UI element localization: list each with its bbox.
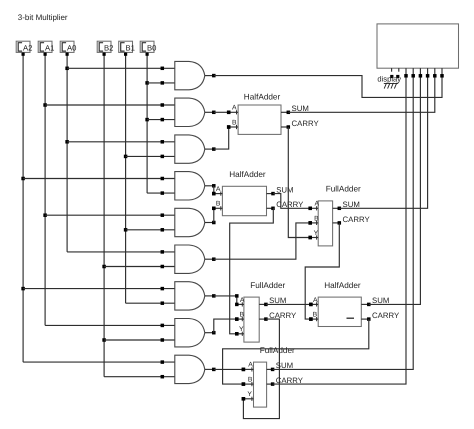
- wire G1 inputs A0,B0: [67, 67, 175, 85]
- svg-text:FullAdder: FullAdder: [250, 281, 285, 290]
- AND gate G8: [175, 319, 216, 347]
- svg-text:HalfAdder: HalfAdder: [324, 281, 361, 290]
- wire B0 vertical bus: [145, 52, 149, 193]
- svg-text:B: B: [248, 376, 253, 383]
- svg-text:B: B: [232, 119, 237, 126]
- svg-text:display: display: [377, 74, 401, 83]
- svg-text:B1: B1: [126, 44, 135, 53]
- svg-text:Y: Y: [314, 230, 319, 237]
- svg-text:CARRY: CARRY: [292, 119, 320, 128]
- svg-text:A: A: [313, 297, 318, 304]
- svg-text:HalfAdder: HalfAdder: [229, 170, 266, 179]
- AND gate G9: [175, 355, 216, 383]
- wire P2 U3 SUM to display: [339, 76, 427, 209]
- wire A1 vertical bus: [43, 52, 47, 325]
- wire B2 vertical bus: [102, 52, 106, 376]
- wire A0 vertical bus: [65, 52, 69, 252]
- wire G8 output to U4 B: [214, 317, 239, 332]
- wire G6 output to U3 B: [214, 221, 312, 259]
- svg-text:A: A: [216, 186, 221, 193]
- AND gate G6: [175, 245, 216, 273]
- svg-text:A: A: [240, 297, 245, 304]
- svg-text:FullAdder: FullAdder: [326, 185, 361, 194]
- svg-text:A: A: [232, 105, 237, 112]
- AND gate G5: [175, 208, 216, 236]
- full-adder U4 FullAdder: [235, 297, 268, 342]
- input pin A0: [60, 41, 76, 52]
- wire G9 output to U6 A: [214, 368, 245, 372]
- input pin B0: [140, 41, 156, 52]
- wire U4 SUM to U5 A: [266, 303, 313, 307]
- wire U5 CARRY to U6 B: [223, 319, 369, 386]
- display subcircuit box: [377, 24, 459, 68]
- wire P3 U5 SUM to display: [369, 76, 421, 305]
- wire G5 inputs A1,B1: [45, 213, 175, 231]
- svg-text:Y: Y: [247, 391, 252, 398]
- wire G3 output to U1 B: [214, 125, 231, 149]
- wire G8 inputs A1,B2: [45, 324, 175, 342]
- wire G7 output to U4 A: [214, 294, 239, 304]
- AND gate G3: [175, 135, 216, 163]
- svg-text:CARRY: CARRY: [343, 215, 371, 224]
- display hash label marks: [384, 83, 398, 89]
- input pin A1: [38, 41, 54, 52]
- input pin A2: [16, 41, 32, 52]
- svg-text:HalfAdder: HalfAdder: [244, 92, 281, 101]
- wire P0 G1 output to display: [214, 76, 442, 98]
- svg-text:A1: A1: [45, 44, 54, 53]
- input pin B1: [119, 41, 135, 52]
- display unconnected pin stubs: [390, 68, 399, 78]
- half-adder U1 HalfAdder: [227, 105, 290, 134]
- svg-text:A0: A0: [67, 44, 76, 53]
- wire G2 inputs A1,B0: [45, 103, 175, 121]
- svg-text:B0: B0: [147, 44, 156, 53]
- wire G2 output to U1 A: [214, 111, 231, 115]
- wire G4 inputs A2,B0: [23, 177, 175, 195]
- wire G5 output to U2 B: [212, 207, 216, 223]
- wire P1 U1 SUM to display: [288, 76, 435, 113]
- AND gate G1: [175, 61, 216, 89]
- svg-text:A: A: [315, 201, 320, 208]
- svg-text:Y: Y: [239, 326, 244, 333]
- svg-text:B2: B2: [104, 44, 113, 53]
- full-adder U6 FullAdder: [242, 362, 275, 407]
- svg-text:A: A: [248, 362, 253, 369]
- half-adder U2 HalfAdder: [212, 186, 275, 215]
- wire G7 inputs A2,B1: [23, 287, 175, 305]
- display pin stubs and connection dots: [404, 68, 444, 77]
- wire P4 U6 SUM to display: [273, 76, 414, 370]
- full-adder U3 FullAdder: [308, 201, 341, 246]
- wire U1 CARRY to U3 Y: [288, 127, 312, 239]
- svg-text:B: B: [240, 311, 245, 318]
- svg-text:B: B: [314, 215, 319, 222]
- AND gate G7: [175, 282, 216, 310]
- svg-text:B: B: [313, 311, 318, 318]
- wire U2 SUM to U3 A: [273, 194, 312, 210]
- AND gate G2: [175, 98, 216, 126]
- wire B1 vertical bus: [124, 52, 128, 303]
- wire A2 vertical bus: [21, 52, 25, 362]
- svg-text:CARRY: CARRY: [372, 311, 400, 320]
- svg-text:3-bit Multiplier: 3-bit Multiplier: [18, 13, 68, 22]
- wire G4 output to U2 A: [212, 186, 216, 196]
- wire U2 CARRY to U4 Y: [230, 208, 274, 335]
- wire U3 CARRY to U5 B: [305, 223, 339, 321]
- wire P5 U6 CARRY to display: [273, 76, 406, 384]
- input pin B2: [97, 41, 113, 52]
- svg-text:A2: A2: [23, 44, 32, 53]
- wire G9 inputs A2,B2: [23, 360, 175, 378]
- wire U4 CARRY to U6 Y: [242, 319, 280, 419]
- wire G3 inputs A0,B1: [67, 140, 175, 158]
- wire G6 inputs A0,B2: [67, 250, 175, 268]
- svg-text:B: B: [216, 201, 221, 208]
- half-adder U5 HalfAdder: [309, 297, 370, 326]
- AND gate G4: [175, 172, 216, 200]
- svg-text:FullAdder: FullAdder: [260, 346, 295, 355]
